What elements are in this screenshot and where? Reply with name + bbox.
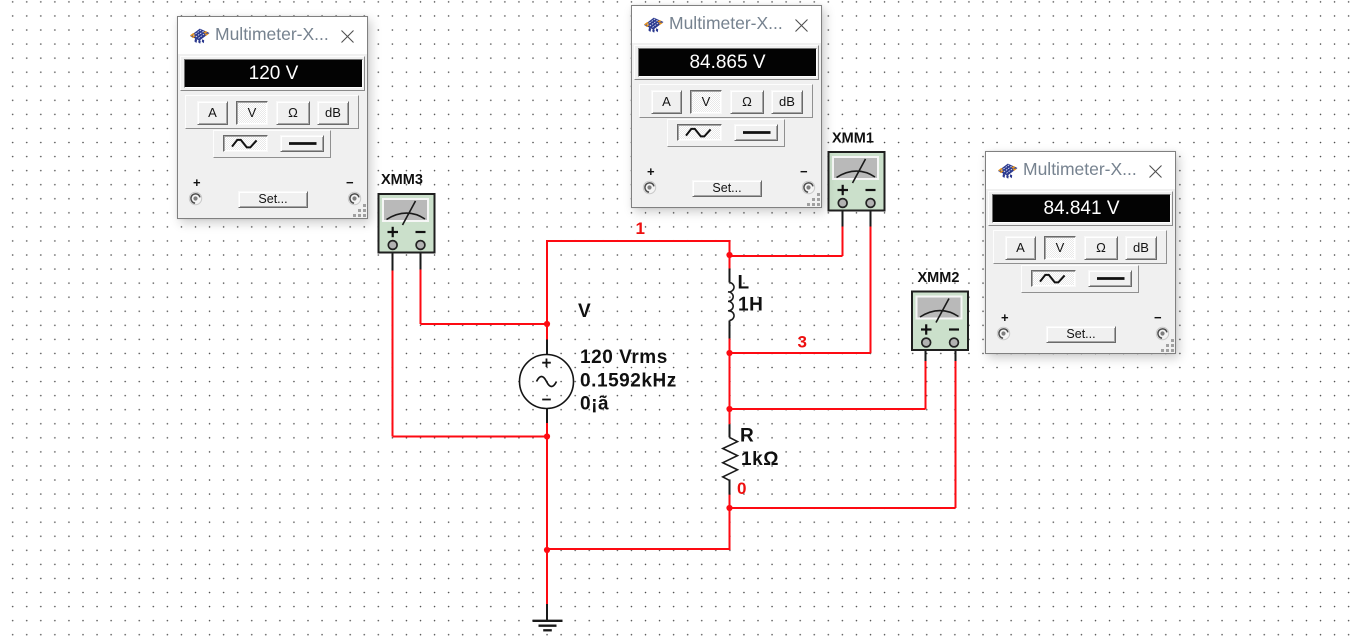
junction [544,433,550,439]
wire [730,255,843,257]
AC voltage source V lead bottom [546,408,548,423]
junction [544,321,550,327]
multimeter panel window (120 V) [177,16,368,219]
inductor L coil [728,283,734,321]
svg-text:R: R [740,426,754,447]
svg-text:3: 3 [798,333,807,352]
black lead XMM1 + [842,207,844,227]
ground symbol [533,621,563,631]
multimeter instrument XMM2 [912,292,968,351]
wire [546,240,548,340]
wire [731,408,926,410]
black lead XMM2 - [955,351,957,361]
wire [955,361,957,508]
wire [729,495,731,509]
wire [393,436,547,438]
svg-text:1H: 1H [738,295,763,316]
junction [726,505,732,511]
multimeter panel window (84.865 V) [631,5,822,208]
ground stem [546,604,548,621]
wire [870,227,872,354]
wire [842,227,844,257]
svg-text:XMM1: XMM1 [832,131,874,147]
wire [729,508,731,550]
multimeter instrument XMM3 [379,194,435,253]
svg-text:120 Vrms: 120 Vrms [580,347,668,368]
wire [925,361,927,409]
wire [392,271,394,437]
resistor R zigzag [723,437,738,480]
black lead XMM3 - [420,251,422,270]
junction [726,350,732,356]
AC voltage source V lead top [546,340,548,356]
wire [729,339,731,354]
svg-text:0.1592kHz: 0.1592kHz [580,371,677,392]
svg-text:XMM2: XMM2 [918,270,960,286]
inductor L lead bottom [729,321,731,339]
wire [547,240,730,242]
wire [731,507,956,509]
wire [729,255,731,269]
black lead XMM2 + [925,351,927,361]
inductor L lead top [729,269,731,283]
wire [547,548,730,550]
junction [726,406,732,412]
wire [729,353,731,424]
multimeter panel window (84.841 V) [985,151,1176,354]
resistor R leads [729,424,731,494]
junction [544,547,550,553]
black lead XMM1 - [870,207,872,227]
wire [420,270,422,325]
wire [731,352,871,354]
svg-text:0¡ã: 0¡ã [580,394,609,415]
junction [726,252,732,258]
multimeter instrument XMM1 [829,152,885,211]
wire [546,550,548,606]
black lead XMM3 + [392,251,394,271]
wire [729,240,731,255]
svg-text:L: L [738,273,750,294]
svg-text:1kΩ: 1kΩ [741,449,779,470]
svg-text:0: 0 [737,479,746,498]
svg-text:V: V [578,301,591,322]
svg-text:1: 1 [636,219,645,238]
AC voltage source V [520,355,574,409]
wire [546,423,548,550]
wire [421,323,547,325]
svg-text:XMM3: XMM3 [381,172,423,188]
